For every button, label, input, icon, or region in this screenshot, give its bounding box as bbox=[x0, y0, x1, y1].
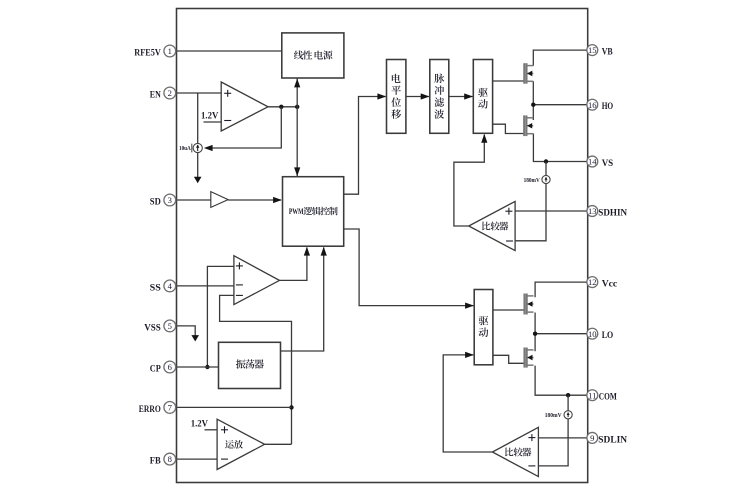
wire driver1 bottom output to Q2 gate bbox=[493, 124, 525, 133]
pin 12 Vcc bbox=[587, 277, 618, 290]
svg-text:3: 3 bbox=[168, 195, 172, 205]
svg-text:10uA: 10uA bbox=[179, 145, 191, 152]
wire V2 to comparator U6 minus input bbox=[538, 419, 568, 466]
pin 10 LO bbox=[587, 328, 614, 341]
source V1 180mV (high side) bbox=[524, 175, 551, 183]
wire pin1 RFE5V to linear regulator bbox=[176, 50, 282, 52]
svg-text:4: 4 bbox=[168, 281, 173, 291]
svg-text:SDLIN: SDLIN bbox=[598, 434, 627, 445]
pin 5 VSS bbox=[144, 320, 176, 333]
wire pin3 SD to buffer bbox=[176, 199, 211, 201]
wire pin4 SS to comparator U3 minus input bbox=[176, 285, 234, 287]
wire PWM logic to driver 2 bbox=[344, 229, 474, 309]
wire COM rail bbox=[535, 366, 588, 398]
pin 14 VS bbox=[587, 156, 614, 169]
svg-text:FB: FB bbox=[150, 456, 161, 467]
svg-text:13: 13 bbox=[588, 206, 597, 216]
svg-text:180mV: 180mV bbox=[545, 412, 562, 419]
wire pin8 FB to U5 minus input bbox=[176, 458, 218, 460]
pin 15 VB bbox=[587, 45, 613, 58]
wire pin13 SDHIN to U4 plus input bbox=[515, 210, 588, 212]
wire pulse filter to driver 1 bbox=[449, 93, 473, 99]
pin 9 SDLIN bbox=[587, 432, 627, 445]
svg-text:5: 5 bbox=[168, 321, 172, 331]
wire error net to U3 second minus input bbox=[220, 295, 294, 444]
wire buffer to PWM logic input bbox=[228, 197, 282, 203]
wire level shifter to pulse filter bbox=[406, 93, 430, 99]
svg-text:COM: COM bbox=[599, 392, 617, 403]
wire driver2 top output to Q3 gate bbox=[493, 309, 525, 311]
pin 11 COM bbox=[587, 390, 617, 403]
pin 3 SD bbox=[150, 194, 176, 207]
wire HO node bbox=[531, 81, 588, 120]
svg-text:8: 8 bbox=[168, 454, 172, 464]
MOSFET Q4 low-side lower bbox=[525, 348, 534, 368]
comparator U4 比较器 (high side) bbox=[469, 201, 515, 250]
wire U3 output to PWM logic bottom bbox=[280, 247, 311, 281]
wire current source to ground arrow bbox=[194, 153, 202, 184]
svg-text:Vcc: Vcc bbox=[602, 279, 618, 290]
wire pin7 ERRO to error net bbox=[176, 406, 292, 408]
svg-text:180mV: 180mV bbox=[524, 177, 540, 184]
wire COM tap down to 180mV source V2 bbox=[567, 395, 569, 411]
MOSFET Q2 high-side lower bbox=[524, 115, 533, 136]
svg-text:10: 10 bbox=[588, 329, 597, 339]
wire VS rail bbox=[533, 134, 587, 164]
wire driver1 top output to Q1 gate bbox=[493, 80, 525, 82]
vertical link linear regulator to PWM logic (double arrow) bbox=[294, 78, 300, 177]
pin 2 EN bbox=[150, 87, 176, 100]
svg-text:12: 12 bbox=[588, 277, 597, 287]
label 1.2V reference for U1 bbox=[201, 111, 221, 122]
block level shifter 电平位移 bbox=[387, 60, 406, 134]
svg-text:VSS: VSS bbox=[144, 322, 161, 333]
svg-text:1.2V: 1.2V bbox=[191, 418, 209, 428]
svg-text:EN: EN bbox=[150, 89, 161, 100]
wire feedback from U1 output node down to current source I1 bbox=[204, 107, 281, 151]
wire U4 output up to driver 1 bbox=[454, 134, 488, 226]
wire pin5 VSS to ground arrow bbox=[176, 326, 199, 342]
wire EN branch down to current source bbox=[197, 93, 199, 143]
svg-text:RFE5V: RFE5V bbox=[134, 47, 161, 58]
pin 6 CP bbox=[150, 361, 176, 374]
svg-text:14: 14 bbox=[588, 157, 597, 167]
pin 4 SS bbox=[150, 280, 176, 293]
svg-text:1.2V: 1.2V bbox=[201, 111, 219, 121]
block PWM logic PWM逻辑控制 bbox=[283, 177, 344, 247]
wire VB rail bbox=[533, 50, 587, 66]
wire pin6 CP to oscillator bbox=[176, 366, 219, 368]
op-amp U1 EN comparator bbox=[221, 82, 268, 131]
pin 13 SDHIN bbox=[587, 206, 627, 219]
svg-text:1: 1 bbox=[168, 46, 172, 56]
MOSFET Q1 high-side upper bbox=[524, 63, 533, 83]
comparator U3 soft-start bbox=[234, 256, 280, 305]
svg-text:ERRO: ERRO bbox=[139, 404, 161, 415]
wire Vcc rail bbox=[535, 282, 588, 297]
svg-text:9: 9 bbox=[590, 433, 594, 443]
wire VS tap down to 180mV source V1 bbox=[545, 162, 547, 176]
buffer U2 on SD input bbox=[211, 192, 228, 208]
wire oscillator output to PWM logic bottom bbox=[281, 247, 327, 351]
pin 8 FB bbox=[150, 453, 176, 466]
svg-text:6: 6 bbox=[168, 362, 173, 372]
svg-text:7: 7 bbox=[168, 403, 173, 413]
svg-text:16: 16 bbox=[588, 100, 597, 110]
wire U6 output up to driver 2 bbox=[443, 352, 492, 452]
block linear regulator 线性电源 bbox=[282, 33, 344, 78]
block oscillator 振荡器 bbox=[219, 342, 281, 388]
svg-text:HO: HO bbox=[602, 101, 614, 112]
svg-text:VS: VS bbox=[602, 158, 614, 169]
pin 7 ERRO bbox=[139, 402, 176, 415]
svg-text:11: 11 bbox=[588, 390, 596, 400]
wire CP branch up to U3 plus input bbox=[205, 266, 234, 369]
source V2 180mV (low side) bbox=[545, 411, 572, 420]
comparator U6 比较器 (low side) bbox=[492, 427, 538, 476]
wire LO node bbox=[533, 313, 588, 352]
wire driver2 bottom output to Q4 gate bbox=[493, 355, 525, 363]
svg-text:2: 2 bbox=[168, 88, 172, 98]
wire comparator U1 output to power rail node bbox=[268, 105, 299, 109]
block driver 1 驱动 bbox=[473, 60, 492, 134]
svg-text:SDHIN: SDHIN bbox=[598, 207, 627, 218]
svg-text:SS: SS bbox=[150, 282, 162, 293]
wire PWM logic to level shifter bbox=[344, 93, 387, 194]
MOSFET Q3 low-side upper bbox=[525, 294, 534, 315]
block pulse filter 脉冲滤波 bbox=[430, 60, 449, 134]
svg-text:VB: VB bbox=[602, 47, 613, 58]
wire op-amp U5 output to error net bbox=[265, 443, 292, 445]
wire pin2 EN to comparator + input bbox=[176, 92, 222, 94]
block driver 2 驱动 bbox=[474, 290, 493, 365]
IC package outline bbox=[177, 9, 588, 483]
wire pin9 SDLIN to U6 plus input bbox=[538, 437, 587, 439]
svg-text:LO: LO bbox=[602, 330, 614, 341]
svg-text:PWM: PWM bbox=[289, 206, 304, 216]
label 1.2V reference for U5 bbox=[191, 418, 217, 430]
pin 16 HO bbox=[587, 99, 614, 112]
svg-text:SD: SD bbox=[150, 196, 161, 207]
svg-text:CP: CP bbox=[150, 363, 161, 374]
current source I1 10uA bbox=[179, 143, 202, 152]
svg-text:15: 15 bbox=[588, 45, 597, 55]
wire V1 to comparator U4 minus input bbox=[515, 184, 546, 241]
op-amp U5 运放 error amp bbox=[217, 419, 265, 469]
pin 1 RFE5V bbox=[134, 45, 175, 58]
